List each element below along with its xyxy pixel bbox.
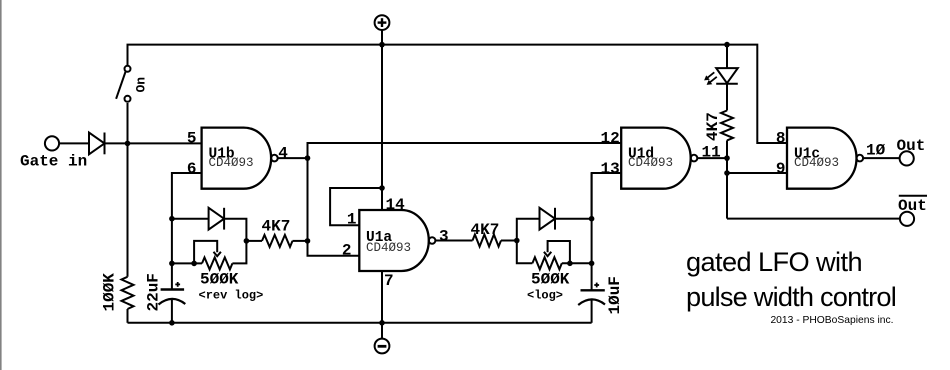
wire D2 to mid node (224, 219, 246, 241)
svg-text:pulse width control: pulse width control (686, 281, 896, 312)
wire P1 right lead to mid node (232, 241, 246, 264)
wire D3 to right column (555, 218, 592, 220)
wire diode to U1b pin 5 (105, 142, 202, 144)
svg-text:2: 2 (342, 242, 352, 260)
node mid junction D2/P1 (244, 238, 250, 244)
op-amp U1d NAND gate (621, 128, 697, 189)
wire U1b out down to 4K7 and U1a pin 2 (308, 158, 360, 256)
Out-bar overline (899, 195, 927, 197)
wire to U1c pin 9 (727, 172, 787, 174)
svg-text:1Ø: 1Ø (866, 142, 886, 160)
LED D4 (704, 68, 738, 85)
op-amp U1a NAND gate (359, 210, 435, 271)
wire +V stub (381, 30, 383, 45)
wire P2 right lead (562, 262, 592, 264)
wire 4K7 to node (501, 240, 517, 242)
resistor R4 4K7 vertical (721, 111, 733, 141)
node C1 bottom junction (169, 320, 175, 326)
wire 100K to bottom rail (127, 309, 129, 323)
P2 wiper arrow head (544, 252, 551, 256)
wire U1a pin 7 to bottom rail (381, 271, 383, 323)
svg-text:7: 7 (384, 272, 394, 290)
svg-text:<rev log>: <rev log> (199, 288, 264, 302)
svg-text:On: On (134, 77, 149, 93)
svg-text:1: 1 (347, 211, 357, 229)
resistor R1 100K (122, 277, 134, 309)
P1 wiper arrow head (214, 252, 221, 256)
svg-text:13: 13 (600, 160, 619, 178)
capacitor C1 22uF (159, 282, 186, 323)
svg-text:4: 4 (278, 145, 288, 163)
svg-text:9: 9 (776, 160, 786, 178)
svg-text:12: 12 (600, 130, 619, 148)
wire 4K7 to output node (726, 140, 728, 158)
svg-text:Gate in: Gate in (20, 153, 87, 171)
capacitor C2 10uF (578, 283, 605, 323)
node second network left junction (514, 238, 520, 244)
wire P1 wiper frame (194, 241, 217, 264)
svg-text:4K7: 4K7 (262, 218, 291, 236)
svg-text:4K7: 4K7 (704, 112, 722, 141)
node P2 wiper junction (567, 261, 573, 267)
svg-text:2013 - PHOBoSapiens inc.: 2013 - PHOBoSapiens inc. (770, 315, 893, 326)
svg-text:gated LFO with: gated LFO with (686, 246, 862, 277)
node U1d output junction (724, 155, 730, 161)
wire U1d pin 13 (592, 173, 622, 219)
svg-text:<log>: <log> (527, 288, 563, 302)
diode D1 (89, 133, 105, 155)
terminal Out (900, 151, 914, 165)
svg-text:CD4Ø93: CD4Ø93 (209, 156, 254, 170)
svg-text:Out: Out (898, 197, 927, 215)
node D3 right junction (589, 216, 595, 222)
resistor R2 4K7 first (246, 235, 307, 247)
wire U1b output to junction (278, 157, 308, 159)
node pin7 bottom junction (379, 320, 385, 326)
svg-text:CD4Ø93: CD4Ø93 (366, 241, 411, 255)
node pin1 loop junction (379, 185, 385, 191)
diode D3 (540, 208, 556, 230)
op-amp U1b NAND gate (202, 128, 278, 189)
svg-text:CD4Ø93: CD4Ø93 (794, 156, 839, 170)
wire pin 1 loop (330, 188, 382, 225)
svg-text:8: 8 (776, 130, 786, 148)
op-amp U1c NAND gate (787, 128, 863, 189)
svg-text:3: 3 (439, 227, 449, 245)
wire VDD column to U1a pin14 (381, 45, 383, 210)
wire LED branch top (726, 45, 728, 69)
svg-text:CD4Ø93: CD4Ø93 (628, 156, 673, 170)
wire U1c output (863, 157, 900, 159)
svg-text:4K7: 4K7 (471, 221, 500, 239)
node P2 right junction (589, 261, 595, 267)
node VDD junction at +V (379, 42, 385, 48)
wire to diode D3 (517, 219, 540, 241)
node diode branch junction (169, 216, 175, 222)
wire LED to 4K7 (726, 84, 728, 111)
node pot branch junction (169, 261, 175, 267)
terminal Out-bar (900, 212, 914, 226)
svg-text:5ØØK: 5ØØK (200, 271, 239, 289)
svg-text:5: 5 (187, 130, 197, 148)
border frame left edge (0, 0, 2, 370)
node junction above LED (724, 42, 730, 48)
svg-text:1ØØK: 1ØØK (101, 273, 119, 312)
wire top rail (128, 45, 788, 277)
wire to diode D2 (172, 218, 209, 220)
wire -V stub (381, 323, 383, 339)
power +V symbol (375, 15, 390, 30)
terminal Gate in (45, 136, 59, 150)
wire bottom rail (128, 322, 592, 324)
wire pot P2 branch (517, 241, 533, 264)
wire P2 wiper frame (548, 241, 570, 263)
potentiometer P2 500K log body (532, 257, 561, 269)
wire U1a output (435, 240, 472, 242)
wire Gate in to diode (59, 142, 89, 144)
svg-text:22uF: 22uF (145, 273, 163, 311)
resistor R3 4K7 second (473, 235, 502, 247)
wire pot P1 branch left (172, 262, 202, 264)
diode D2 (209, 208, 225, 230)
wire U1b pin 6 down left column (172, 173, 202, 290)
svg-text:1ØuF: 1ØuF (606, 276, 624, 314)
power -V symbol (375, 339, 390, 354)
svg-text:5ØØK: 5ØØK (531, 271, 570, 289)
node 4K7 right junction (305, 238, 311, 244)
node pin 9 junction (724, 170, 730, 176)
node junction gate-in / switch (125, 141, 131, 147)
potentiometer P1 500K rev log body (202, 257, 232, 269)
svg-text:Out: Out (897, 137, 926, 155)
wire right column pin13 down to cap (591, 173, 593, 290)
node P1 left junction (191, 261, 197, 267)
svg-text:6: 6 (187, 160, 197, 178)
wire inverted out rail (727, 218, 900, 220)
node U1b output junction (305, 155, 311, 161)
wire U1b out up and right to U1d pin 12 (308, 143, 622, 158)
wire U1d output to junction (697, 157, 727, 159)
wire U1d out down to NOT-out rail (726, 158, 728, 219)
switch SW1 On (116, 66, 133, 103)
